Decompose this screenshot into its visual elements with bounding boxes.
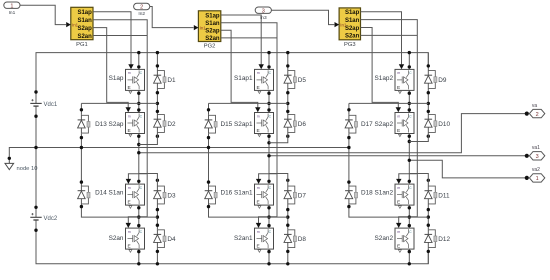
wire collector string leg1 (138, 53, 140, 70)
wire clamp mid leg2 (208, 134, 210, 186)
wire PG3 S2an gate joins long vertical (361, 34, 418, 36)
wire collector string leg2 (268, 53, 270, 70)
svg-text:Vdc2: Vdc2 (44, 216, 58, 222)
IGBT m-port marker (258, 206, 261, 209)
svg-text:S1ap: S1ap (345, 10, 360, 16)
diode D7 (284, 186, 306, 205)
node clamp top dot leg2 (207, 108, 210, 111)
svg-text:D11: D11 (438, 192, 450, 199)
IGBT S2ap (95, 113, 144, 134)
node C dot row3 leg3 (408, 180, 411, 183)
node link-down junction leg3 (408, 215, 411, 218)
IGBT m-port marker (398, 134, 401, 137)
node diode-string dot leg1 (156, 64, 159, 67)
wire clamp-down link leg1 (81, 205, 157, 218)
wire D lower pair leg3 (427, 205, 429, 230)
node rail-collector junction leg1 (137, 51, 140, 54)
input port 1 In1 (4, 2, 20, 16)
svg-text:3: 3 (262, 8, 265, 14)
diode D5 (284, 70, 306, 89)
svg-text:D15 S2ap1: D15 S2ap1 (221, 121, 253, 128)
node clamp bottom dot leg3 (347, 205, 350, 208)
wire PG2 S1ap gate to S1ap1 (221, 15, 261, 64)
wire D4 to bottom rail leg3 (427, 248, 429, 264)
node C dot S1 row1 leg1 (137, 65, 140, 68)
node clamp below-upper dot leg2 (207, 136, 210, 139)
node clamp above-lower dot leg2 (207, 180, 210, 183)
wire rail to D string leg2 (287, 53, 289, 70)
arrowhead gate S2a row leg2 (255, 107, 260, 112)
wire PG1 S2ap gate (93, 28, 128, 108)
svg-text:D5: D5 (298, 77, 307, 84)
svg-text:m: m (128, 114, 131, 118)
node diode-string dot leg2 (286, 102, 289, 105)
svg-text:In1: In1 (9, 10, 16, 16)
node E dot row2 leg2 (267, 135, 270, 138)
node link-up junction leg3 (408, 102, 411, 105)
wire neutral to Vdc2 (35, 148, 37, 218)
node C dot row4 leg2 (267, 224, 270, 227)
node clamp neutral junction leg2 (207, 146, 210, 149)
wire In1 to PG1 (20, 5, 66, 24)
wire PG3 S1ap gate to S1ap2 (361, 12, 402, 65)
node clamp bottom dot leg2 (207, 205, 210, 208)
svg-text:D12: D12 (438, 236, 450, 243)
node link-up junction leg1 (137, 102, 140, 105)
wire D lower pair leg2 (287, 205, 289, 230)
node clamp bottom dot leg1 (80, 205, 83, 208)
svg-text:E: E (397, 85, 400, 91)
wire diode-mid link leg2 (269, 133, 288, 143)
diode D1 (154, 70, 176, 89)
node C dot row2 leg2 (267, 108, 270, 111)
svg-text:S2an: S2an (77, 34, 92, 40)
wire D4 to bottom rail leg2 (287, 248, 289, 264)
svg-text:D7: D7 (298, 192, 307, 199)
node Dstring bottom rail junction leg1 (156, 262, 159, 265)
IGBT m-port marker (129, 134, 132, 137)
node diode-string dot leg2 (286, 224, 289, 227)
svg-text:Vdc1: Vdc1 (44, 102, 58, 108)
svg-text:In1: In1 (340, 23, 347, 28)
wire clamp-up link leg2 (209, 102, 288, 104)
IGBT S1an2 (361, 184, 414, 205)
node diode-string dot leg1 (156, 208, 159, 211)
IGBT S1ap2 (375, 69, 414, 90)
input port 3 In3 (255, 7, 271, 21)
node diode-string dot leg1 (156, 179, 159, 182)
node diode-string dot leg1 (156, 110, 159, 113)
node C dot S1 row1 leg3 (408, 65, 411, 68)
svg-text:S2ap: S2ap (345, 26, 360, 32)
IGBT m-port marker (129, 91, 132, 94)
pulse generator subsystem PG3 (335, 8, 361, 48)
svg-text:S1ap1: S1ap1 (234, 75, 253, 82)
IGBT m-port marker (258, 91, 261, 94)
wire S2an gate branch leg3 (399, 217, 418, 223)
top DC+ rail (36, 53, 428, 92)
node Vdc1 top junction (34, 90, 37, 93)
wire D upper pair leg3 (427, 89, 429, 114)
svg-text:E: E (257, 200, 260, 206)
node link-down junction leg2 (267, 215, 270, 218)
wire D lower pair leg1 (156, 205, 158, 230)
svg-text:m: m (128, 230, 131, 234)
svg-text:D9: D9 (438, 77, 447, 84)
node va2 tap junction (408, 159, 411, 162)
diode D2 (154, 114, 176, 133)
svg-text:m: m (257, 114, 260, 118)
node diode-string dot leg3 (427, 135, 430, 138)
node diode-string dot leg2 (286, 110, 289, 113)
output port va (529, 103, 544, 118)
wire clamp-down link leg2 (209, 205, 288, 218)
wire In3 to PG3 (271, 10, 334, 24)
wire D4 to bottom rail leg1 (156, 248, 158, 264)
IGBT m-port marker (129, 250, 132, 253)
node C dot row2 leg3 (408, 108, 411, 111)
svg-text:va2: va2 (532, 167, 540, 173)
node clamp neutral junction leg1 (80, 146, 83, 149)
svg-text:S2an1: S2an1 (234, 235, 253, 242)
svg-text:PG2: PG2 (204, 44, 216, 50)
node C dot row4 leg3 (408, 224, 411, 227)
IGBT S2ap2 (361, 113, 414, 134)
svg-text:m: m (257, 230, 260, 234)
node diode-string dot leg1 (156, 102, 159, 105)
svg-text:PG1: PG1 (76, 42, 88, 48)
wire PG3 S1an gate (long vertical) (361, 20, 418, 217)
wire S2an gate branch leg2 (259, 217, 278, 223)
node Vdc2 top junction (34, 206, 37, 209)
wire rail to D string leg1 (156, 53, 158, 70)
node diode-string dot leg3 (427, 179, 430, 182)
clamp diode upper leg2 (205, 115, 217, 134)
wire PG3 S2ap gate (361, 28, 399, 108)
arrowhead gate S1ap (128, 64, 133, 69)
svg-text:D4: D4 (167, 236, 176, 243)
wire diode-mid link leg1 (139, 133, 158, 145)
node bottom rail junction leg2 (267, 262, 270, 265)
node rail-Dstring junction leg1 (156, 51, 159, 54)
svg-text:E: E (128, 244, 131, 250)
svg-text:m: m (257, 186, 260, 190)
IGBT m-port marker (258, 134, 261, 137)
IGBT m-port marker (398, 206, 401, 209)
node E dot row1 leg2 (267, 92, 270, 95)
svg-text:S1an: S1an (345, 18, 360, 24)
arrowhead gate S1ap2 (399, 64, 404, 69)
wire phase tap to output va2 (409, 160, 527, 178)
svg-text:node 10: node 10 (17, 166, 38, 172)
node Vdc2 bottom junction (34, 229, 37, 232)
node C dot row3 leg1 (137, 180, 140, 183)
svg-text:E: E (128, 200, 131, 206)
IGBT S2ap1 (221, 113, 274, 134)
svg-text:D1: D1 (167, 77, 176, 84)
arrowhead gate S1an row leg3 (396, 179, 401, 184)
svg-text:m: m (397, 186, 400, 190)
wire clamp mid leg3 (348, 134, 350, 186)
node rail-collector junction leg3 (408, 51, 411, 54)
diode D8 (284, 229, 306, 248)
wire PG2 S2ap gate (221, 30, 258, 107)
svg-text:1: 1 (10, 3, 13, 9)
IGBT m-port marker (129, 206, 132, 209)
wire clamp-up link leg3 (349, 102, 428, 104)
wire diode-mid link leg3 (409, 133, 428, 142)
node diode-string dot leg2 (286, 91, 289, 94)
node E dot row1 leg1 (137, 92, 140, 95)
svg-text:E: E (397, 244, 400, 250)
IGBT S2an1 (234, 228, 273, 249)
svg-text:D17 S2ap2: D17 S2ap2 (361, 121, 393, 128)
pulse generator subsystem PG1 (66, 7, 93, 48)
svg-text:2: 2 (140, 5, 143, 11)
wire PG1 S1ap gate to S1ap (93, 12, 131, 65)
node diode-string dot leg2 (286, 215, 289, 218)
svg-text:D18 S1an2: D18 S1an2 (361, 190, 393, 197)
diode D9 (425, 70, 447, 89)
node diode-string dot leg1 (156, 250, 159, 253)
node diode-string dot leg2 (286, 64, 289, 67)
IGBT m-port marker (398, 250, 401, 253)
diode D12 (425, 229, 451, 248)
pulse generator subsystem PG2 (194, 11, 221, 50)
arrowhead gate S1an row leg1 (126, 179, 131, 184)
node clamp neutral junction leg3 (347, 146, 350, 149)
node diode-string dot leg1 (156, 135, 159, 138)
arrowhead gate S2a row leg1 (126, 107, 131, 112)
svg-text:D16 S1an1: D16 S1an1 (221, 190, 253, 197)
clamp diode upper leg1 (78, 115, 90, 134)
svg-text:m: m (397, 230, 400, 234)
clamp diode upper leg3 (345, 115, 357, 134)
wire string to D3-top link leg2 (269, 174, 288, 186)
svg-text:D10: D10 (438, 121, 450, 128)
node va1 tap junction (267, 154, 270, 157)
node diode-string dot leg3 (427, 215, 430, 218)
node diode-string dot leg3 (427, 91, 430, 94)
svg-text:D14 S1an: D14 S1an (95, 190, 124, 197)
output port va1 (529, 145, 544, 160)
arrowhead gate S2a row leg3 (396, 107, 401, 112)
node E dot row4 leg2 (267, 250, 270, 253)
IGBT S2an2 (375, 228, 414, 249)
arrowhead gate S1ap1 (259, 64, 264, 69)
IGBT S2an (109, 228, 145, 249)
node bottom rail junction leg3 (408, 262, 411, 265)
DC voltage source Vdc1 (30, 99, 58, 108)
node clamp above-lower dot leg3 (347, 180, 350, 183)
node clamp below-upper dot leg3 (347, 136, 350, 139)
svg-text:S1ap: S1ap (77, 10, 92, 16)
clamp diode lower leg2 (205, 186, 217, 205)
wire rail to D string leg3 (427, 53, 429, 70)
wire phase tap to output va (139, 114, 527, 153)
svg-text:E: E (257, 128, 260, 134)
wire PG2 S2an gate joins long vertical (221, 37, 277, 39)
svg-text:S1ap: S1ap (109, 75, 124, 82)
node va tap junction (137, 151, 140, 154)
node diode-string dot leg2 (286, 250, 289, 253)
node link-down junction leg1 (137, 215, 140, 218)
wire PG1 S1an gate (long vertical) (93, 20, 147, 217)
wire phase tap to output va1 (269, 155, 527, 157)
wire S1an gate branch leg1 (128, 174, 147, 179)
ground port dot (8, 157, 11, 160)
clamp diode lower leg3 (345, 186, 357, 205)
node diode-string dot leg3 (427, 102, 430, 105)
node diode-string dot leg2 (286, 208, 289, 211)
svg-text:E: E (397, 128, 400, 134)
arrowhead gate S1an row leg2 (256, 179, 261, 184)
svg-text:S1ap: S1ap (205, 13, 220, 19)
IGBT S1an1 (221, 184, 274, 205)
svg-text:2: 2 (536, 112, 539, 118)
node E dot row2 leg1 (137, 135, 140, 138)
IGBT S1an (95, 184, 144, 205)
svg-text:S2ap: S2ap (205, 29, 220, 35)
node clamp above-lower dot leg1 (80, 180, 83, 183)
wire clamp-up link leg1 (81, 102, 157, 104)
svg-text:D13 S2ap: D13 S2ap (95, 121, 124, 128)
diode D10 (425, 114, 451, 133)
node clamp top dot leg3 (347, 108, 350, 111)
wire string to D3-top link leg3 (409, 174, 428, 186)
ground node 10 (5, 157, 14, 170)
node Vdc1 bottom junction (34, 115, 37, 118)
svg-text:3: 3 (536, 154, 539, 160)
svg-text:m: m (257, 71, 260, 75)
svg-text:D3: D3 (167, 192, 176, 199)
clamp diode lower leg1 (78, 186, 90, 205)
node E dot row4 leg1 (137, 250, 140, 253)
node diode-string dot leg2 (286, 179, 289, 182)
node diode-string dot leg2 (286, 135, 289, 138)
svg-text:In2: In2 (138, 11, 145, 17)
node diode-string dot leg3 (427, 64, 430, 67)
diode D3 (154, 186, 176, 205)
node diode-string dot leg3 (427, 208, 430, 211)
arrowhead gate S2an row leg2 (256, 223, 261, 228)
node va port dot (525, 112, 529, 116)
svg-text:D2: D2 (167, 121, 176, 128)
wire collector string leg3 (408, 53, 410, 70)
svg-text:S1an: S1an (77, 18, 92, 24)
node diode-string dot leg3 (427, 110, 430, 113)
node Dstring bottom rail junction leg2 (286, 262, 289, 265)
node diode-string dot leg1 (156, 224, 159, 227)
wire clamp mid leg1 (80, 134, 82, 186)
diode D11 (425, 186, 450, 205)
wire Vdc1 to neutral (35, 92, 37, 103)
svg-text:In1: In1 (200, 26, 207, 31)
arrowhead gate S2an row leg3 (396, 223, 401, 228)
svg-text:S2ap: S2ap (77, 26, 92, 32)
wire clamp-down link leg3 (349, 205, 428, 218)
wire S2an gate branch leg1 (128, 217, 147, 223)
wire D upper pair leg2 (287, 89, 289, 114)
svg-text:S2an: S2an (109, 235, 124, 242)
node rail-collector junction leg2 (267, 51, 270, 54)
svg-text:E: E (257, 244, 260, 250)
svg-text:In1: In1 (72, 23, 79, 28)
svg-text:E: E (128, 85, 131, 91)
svg-text:m: m (128, 71, 131, 75)
node diode-string dot leg3 (427, 224, 430, 227)
node E dot row2 leg3 (408, 135, 411, 138)
wire string to D3-top link leg1 (139, 174, 158, 186)
IGBT S1ap1 (234, 69, 273, 90)
svg-text:m: m (397, 71, 400, 75)
svg-text:E: E (397, 200, 400, 206)
node midpoint D-link junction leg3 (408, 140, 411, 143)
node clamp top dot leg1 (80, 108, 83, 111)
svg-text:D6: D6 (298, 121, 307, 128)
node E dot row1 leg3 (408, 92, 411, 95)
svg-text:S2an: S2an (205, 36, 220, 42)
wire PG2 S1an gate (long vertical) (221, 23, 277, 217)
neutral wire from ground (9, 148, 349, 158)
IGBT m-port marker (398, 91, 401, 94)
output port va2 (529, 167, 544, 182)
node C dot row2 leg1 (137, 108, 140, 111)
node midpoint D-link junction leg2 (267, 141, 270, 144)
svg-text:m: m (128, 186, 131, 190)
node diode-string dot leg3 (427, 250, 430, 253)
node link-up junction leg2 (267, 102, 270, 105)
node C dot row3 leg2 (267, 180, 270, 183)
wire PG1 S2an gate joins long vertical (93, 35, 147, 37)
node bottom rail junction leg1 (137, 262, 140, 265)
svg-text:S1an: S1an (205, 21, 220, 27)
svg-text:E: E (128, 128, 131, 134)
svg-text:D8: D8 (298, 236, 307, 243)
node midpoint D-link junction leg1 (137, 143, 140, 146)
svg-text:S2an: S2an (345, 34, 360, 40)
node diode-string dot leg1 (156, 215, 159, 218)
node diode-string dot leg1 (156, 91, 159, 94)
svg-text:va1: va1 (532, 145, 540, 151)
node E dot row3 leg2 (267, 206, 270, 209)
svg-text:S2an2: S2an2 (375, 235, 394, 242)
node va1 port dot (525, 154, 529, 158)
arrowhead gate S2an row leg1 (126, 223, 131, 228)
DC voltage source Vdc2 (30, 213, 58, 222)
wire In2 to PG2 (150, 7, 194, 28)
wire D upper pair leg1 (156, 89, 158, 114)
input port 2 In2 (134, 3, 150, 17)
node neutral-left-rail junction (34, 146, 37, 149)
node E dot row4 leg3 (408, 250, 411, 253)
node C dot S1 row1 leg2 (267, 65, 270, 68)
node va2 port dot (525, 176, 529, 180)
node C dot row4 leg1 (137, 224, 140, 227)
svg-text:1: 1 (536, 176, 539, 182)
IGBT S1ap (109, 69, 145, 90)
svg-text:va: va (532, 103, 538, 109)
node E dot row3 leg3 (408, 206, 411, 209)
diode D4 (154, 229, 176, 248)
svg-text:S1ap2: S1ap2 (375, 75, 394, 82)
node rail-Dstring junction leg2 (286, 51, 289, 54)
bottom DC- rail (36, 230, 428, 264)
svg-text:E: E (257, 85, 260, 91)
IGBT m-port marker (258, 250, 261, 253)
node clamp below-upper dot leg1 (80, 136, 83, 139)
wire S1an gate branch leg2 (259, 174, 277, 179)
